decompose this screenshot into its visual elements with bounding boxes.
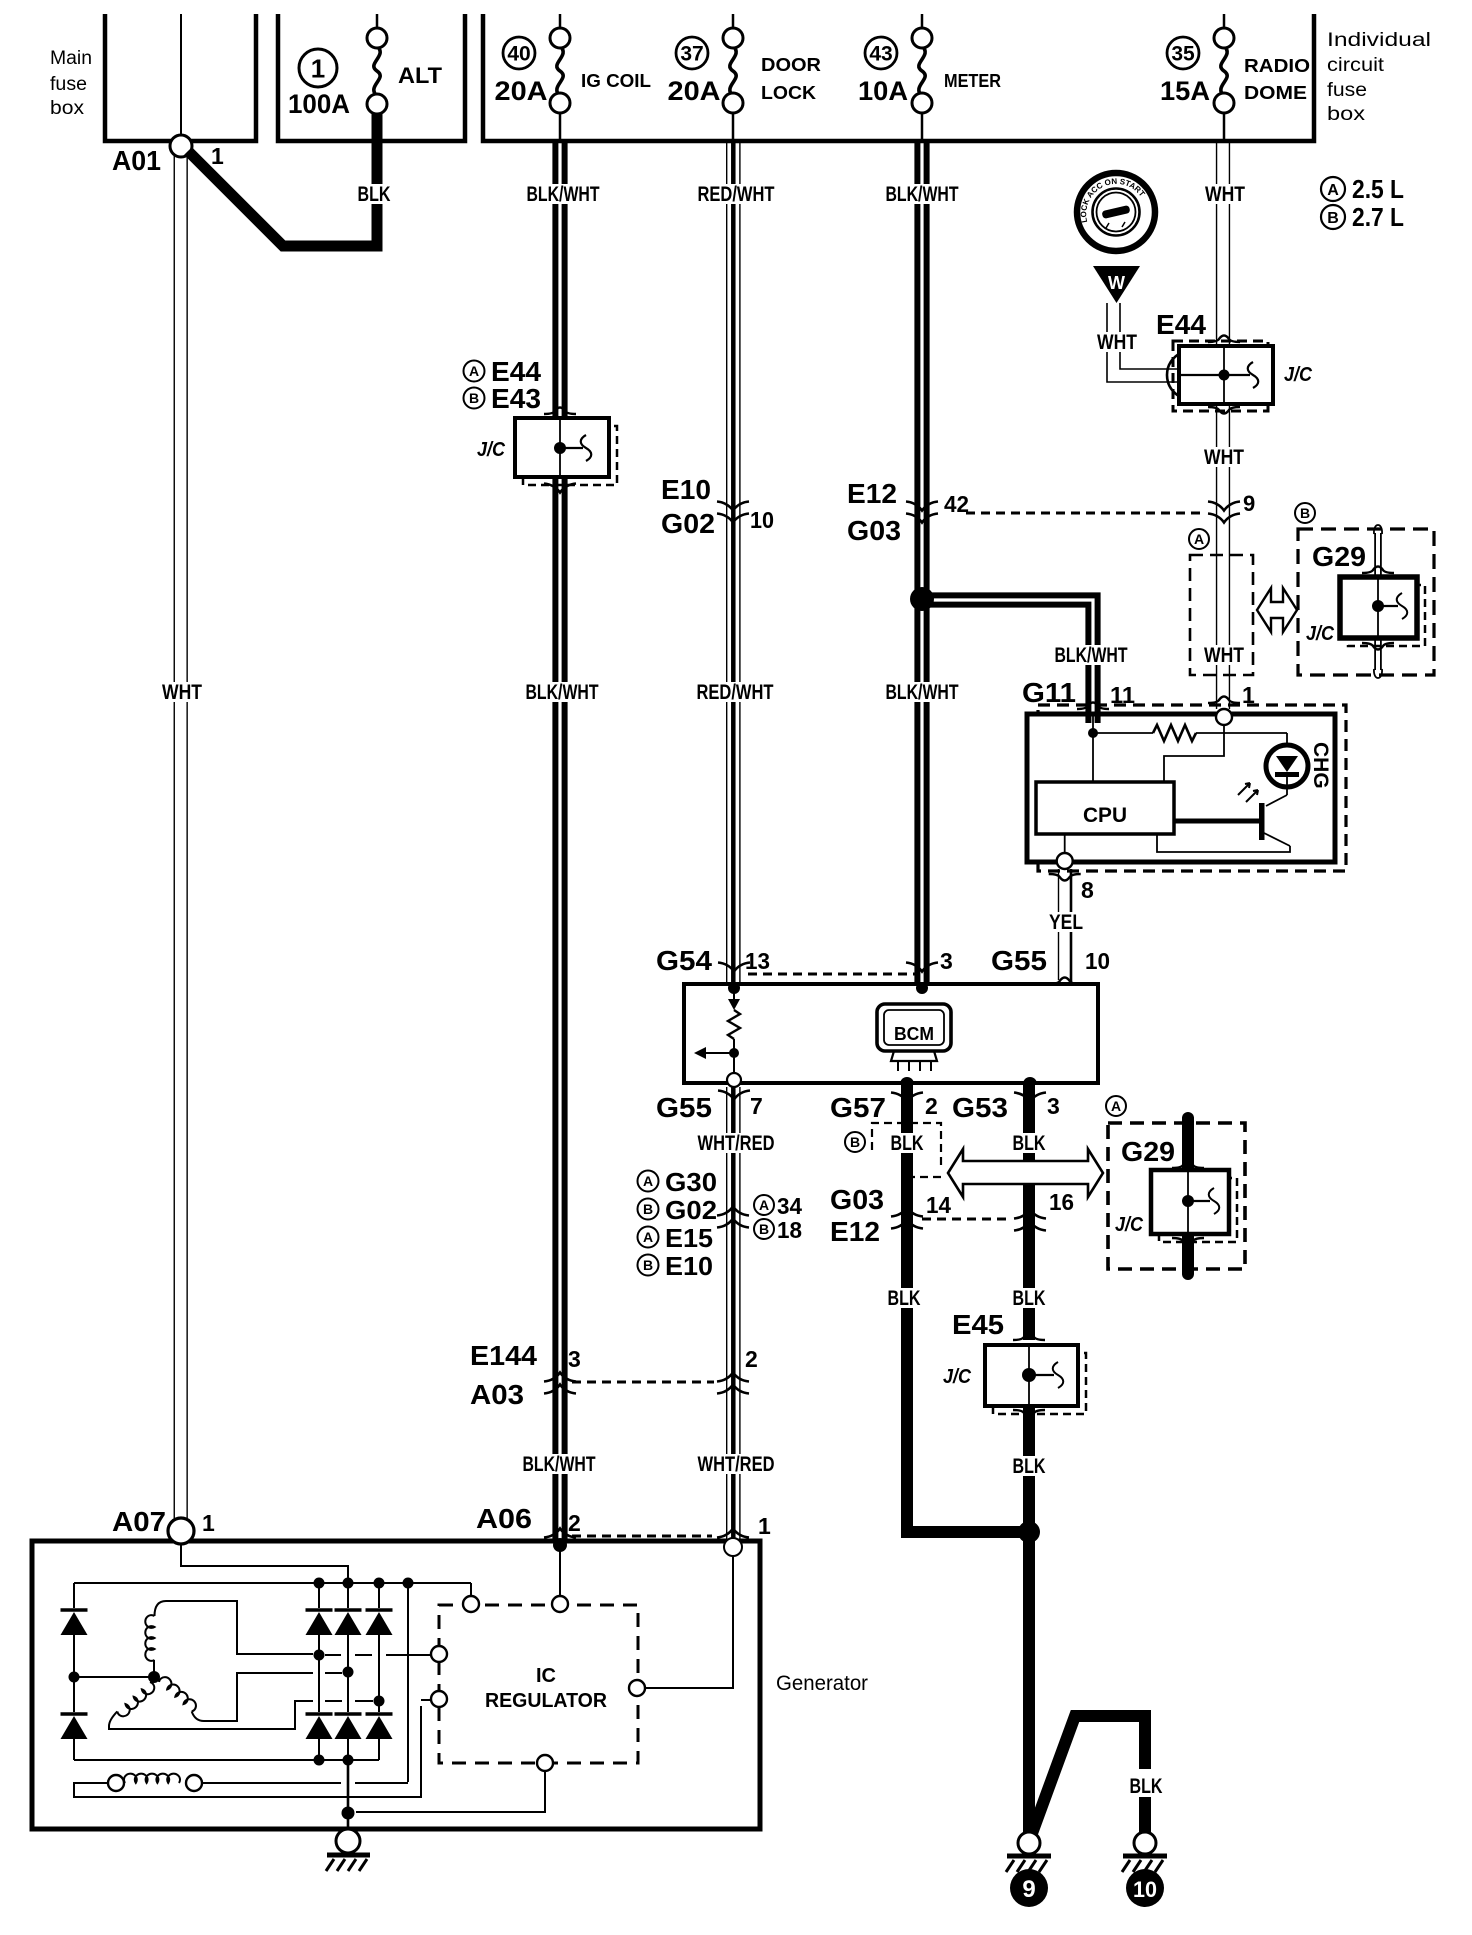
svg-text:14: 14 (926, 1192, 951, 1218)
svg-text:fuse: fuse (1327, 80, 1367, 101)
svg-text:B: B (643, 1201, 653, 1217)
pin hump G53 at BCM edge (1023, 1077, 1037, 1084)
svg-text:3: 3 (1047, 1093, 1060, 1119)
pin 1 terminal circle (1216, 709, 1232, 725)
pin hump G57 at BCM edge (900, 1077, 914, 1084)
svg-text:100A: 100A (288, 89, 350, 119)
svg-text:1: 1 (311, 53, 325, 83)
wire WHT/RED from BCM pin 7 to generator pin 1 (726, 1087, 728, 1541)
dashed tie pins 13-3 (748, 973, 917, 976)
wire label RED/WHT door (694, 682, 777, 702)
svg-text:RED/WHT: RED/WHT (697, 681, 774, 704)
connector label A E44 B E43 (464, 361, 485, 382)
connector pin 16 on G53 wire (1014, 1210, 1046, 1219)
thick BLK stub through lower G29 (1182, 1118, 1194, 1274)
svg-text:37: 37 (680, 43, 703, 66)
svg-text:DOOR: DOOR (761, 55, 821, 75)
svg-text:WHT/RED: WHT/RED (698, 1132, 775, 1155)
IC regulator dashed box (439, 1605, 638, 1763)
ignition W terminal triangle (1093, 266, 1140, 303)
svg-text:G29: G29 (1312, 541, 1366, 572)
field rotor winding with slip rings (108, 1775, 124, 1791)
field feed column 4 (407, 1583, 409, 1782)
svg-text:CPU: CPU (1083, 804, 1127, 827)
wire BLK/WHT from fuse 43 to BCM pin 3 (914, 141, 920, 984)
wire label BLK G53 (1010, 1133, 1049, 1153)
wire label WHT/RED below BCM (695, 1133, 778, 1153)
svg-text:BLK: BLK (1013, 1132, 1046, 1155)
wire BLK/WHT from fuse 40 down to A06 (552, 141, 558, 1541)
svg-text:1: 1 (1242, 682, 1255, 708)
svg-text:G55: G55 (991, 945, 1047, 976)
wire label BLK/WHT ig (523, 682, 602, 702)
svg-text:BLK/WHT: BLK/WHT (527, 183, 600, 206)
svg-text:E45: E45 (952, 1309, 1004, 1340)
ground 9 (1018, 1832, 1040, 1854)
svg-text:BLK: BLK (891, 1132, 924, 1155)
svg-text:43: 43 (869, 43, 892, 66)
svg-text:A: A (469, 363, 479, 379)
ignition switch LOCK ACC ON START (1077, 173, 1155, 251)
wire label BLK G57 (888, 1133, 927, 1153)
svg-text:ALT: ALT (398, 63, 443, 88)
svg-text:2.7 L: 2.7 L (1352, 202, 1404, 232)
meter unit G11 box (1027, 714, 1335, 862)
wire label BLK/WHT bottom (520, 1454, 599, 1474)
svg-text:10: 10 (1133, 1877, 1157, 1902)
rectifier diode column 2 (347, 1583, 349, 1608)
svg-text:B: B (759, 1221, 769, 1237)
svg-text:METER: METER (944, 71, 1001, 91)
svg-text:3: 3 (940, 948, 953, 974)
svg-text:7: 7 (750, 1093, 763, 1119)
generator B+ bus (74, 1582, 471, 1584)
rectifier diode column 3 (378, 1583, 380, 1608)
rectifier diode column 1 (318, 1583, 320, 1608)
connector G55 pin 7 (727, 1073, 741, 1087)
fuse 35 15A RADIO DOME (1223, 14, 1226, 28)
connector list A G30 B G02 A E15 B E10 (638, 1171, 659, 1192)
fuse 37 20A DOOR LOCK (732, 14, 735, 28)
wire RED/WHT from fuse 37 to BCM pin 13 (726, 141, 728, 984)
svg-text:WHT: WHT (1205, 183, 1245, 206)
wire label BLK/WHT meter2 (883, 682, 962, 702)
svg-text:A: A (1327, 182, 1339, 199)
svg-text:G30: G30 (665, 1167, 717, 1197)
svg-text:G53: G53 (952, 1092, 1008, 1123)
wire YEL from G11 pin 8 to BCM pin 10 (1058, 869, 1060, 980)
svg-text:B: B (1300, 505, 1310, 521)
generator ground (336, 1829, 360, 1853)
dashed tie 14-16 (922, 1218, 1012, 1221)
svg-text:Generator: Generator (776, 1672, 868, 1695)
svg-text:10: 10 (1085, 948, 1110, 974)
svg-text:2: 2 (745, 1346, 758, 1372)
svg-text:BLK/WHT: BLK/WHT (523, 1453, 596, 1476)
svg-text:E10: E10 (661, 474, 711, 505)
fuse 40 20A IG COIL (559, 14, 562, 28)
svg-text:G55: G55 (656, 1092, 712, 1123)
wire BLK below E45 (1023, 1406, 1035, 1837)
svg-text:9: 9 (1243, 491, 1255, 516)
svg-text:G57: G57 (830, 1092, 886, 1123)
connector pin 1 on G11 (1208, 697, 1240, 704)
generator box (32, 1541, 760, 1829)
svg-text:35: 35 (1171, 43, 1195, 66)
wire label WHT below E44 (1201, 447, 1247, 467)
svg-text:BCM: BCM (894, 1024, 934, 1044)
pin 8 of G11 (1064, 834, 1066, 853)
svg-text:10A: 10A (858, 76, 908, 106)
svg-text:G54: G54 (656, 945, 712, 976)
wire label BLK (355, 184, 394, 204)
svg-text:BLK/WHT: BLK/WHT (886, 183, 959, 206)
svg-text:E12: E12 (830, 1216, 880, 1247)
left diode column (73, 1583, 75, 1608)
main fuse box (105, 14, 256, 141)
svg-text:B: B (1327, 210, 1339, 227)
svg-text:BLK/WHT: BLK/WHT (526, 681, 599, 704)
svg-text:WHT: WHT (1204, 644, 1244, 667)
svg-text:9: 9 (1022, 1876, 1035, 1903)
wire BLK G57 pin 2 thick (907, 1083, 1023, 1532)
ground wire to ground 9 (1031, 1716, 1145, 1836)
wire label BLK ground 10 (1127, 1776, 1166, 1796)
svg-text:J/C: J/C (1284, 364, 1312, 386)
wire label RED/WHT (695, 184, 778, 204)
svg-text:20A: 20A (495, 76, 548, 106)
fuse 43 10A METER (921, 14, 924, 28)
equivalence arrow between A and B (1257, 588, 1297, 632)
svg-text:box: box (1327, 104, 1366, 125)
transistor in meter (1266, 795, 1287, 806)
svg-text:A06: A06 (476, 1503, 532, 1534)
svg-text:LOCK: LOCK (761, 83, 816, 103)
svg-text:A01: A01 (112, 145, 161, 176)
svg-text:BLK: BLK (1013, 1455, 1046, 1478)
svg-text:WHT: WHT (162, 681, 202, 704)
CPU box in meter (1036, 782, 1174, 834)
svg-text:BLK/WHT: BLK/WHT (886, 681, 959, 704)
svg-text:E43: E43 (491, 383, 541, 414)
charge indicator LED CHG (1286, 733, 1288, 752)
ALT main fuse box (278, 14, 465, 141)
svg-text:20A: 20A (668, 76, 721, 106)
svg-text:2: 2 (925, 1093, 938, 1119)
svg-text:3: 3 (568, 1346, 581, 1372)
svg-text:E10: E10 (665, 1251, 713, 1281)
resistor in meter (1093, 732, 1153, 734)
wire label BLK/WHT branch (1052, 645, 1131, 665)
generator internal wiring (181, 1544, 348, 1580)
BCM control unit box (684, 984, 1098, 1083)
svg-text:IC: IC (536, 1665, 556, 1687)
junction connector E44 J/C (1173, 341, 1268, 411)
individual circuit fuse box (483, 14, 1314, 141)
junction connector E43 J/C on IG coil wire (544, 408, 576, 415)
svg-text:A: A (1111, 1098, 1121, 1114)
svg-text:BLK: BLK (1013, 1287, 1046, 1310)
G11 connector dashed outline (1038, 705, 1346, 871)
svg-text:IG COIL: IG COIL (581, 71, 651, 91)
junction connector G29 J/C lower (1159, 1178, 1237, 1242)
engine variant legend A 2.5L B 2.7L (1321, 177, 1345, 201)
svg-text:J/C: J/C (1115, 1214, 1143, 1236)
main fuse box internal feed wire (180, 14, 182, 135)
wire BLK thick from A01 to ALT fuse (188, 114, 377, 246)
svg-text:E144: E144 (470, 1340, 537, 1371)
wire label WHT/RED bottom (695, 1454, 778, 1474)
svg-text:J/C: J/C (943, 1366, 971, 1388)
svg-text:BLK: BLK (358, 183, 391, 206)
wire label BLK/WHT (524, 184, 603, 204)
svg-text:BLK: BLK (1130, 1775, 1163, 1798)
wire WHT from A01 to A07 (173, 155, 175, 1519)
svg-text:15A: 15A (1160, 76, 1210, 106)
svg-text:1: 1 (758, 1513, 771, 1539)
svg-text:1: 1 (202, 1510, 215, 1536)
svg-text:box: box (50, 98, 85, 119)
generator bottom bus (74, 1759, 379, 1761)
svg-text:8: 8 (1081, 877, 1094, 903)
svg-text:2.5 L: 2.5 L (1352, 174, 1404, 204)
junction node on meter wire (910, 587, 934, 611)
svg-text:RADIO: RADIO (1244, 56, 1310, 76)
wire WHT from W terminal to E44 (1107, 303, 1179, 382)
svg-text:Main: Main (50, 48, 92, 69)
wire WHT from fuse 35 to G11 pin 1 (1216, 141, 1218, 709)
svg-text:G02: G02 (661, 508, 715, 539)
wire label YEL (1046, 912, 1086, 932)
svg-text:42: 42 (944, 491, 969, 517)
wire label BLK G53 lower (1010, 1288, 1049, 1308)
wire BLK/WHT branch from node to G11 pin 11 (925, 595, 1098, 718)
svg-text:40: 40 (507, 43, 530, 66)
svg-text:G02: G02 (665, 1195, 717, 1225)
LED light arrows (1246, 790, 1258, 802)
svg-text:E44: E44 (1156, 309, 1206, 340)
svg-text:G11: G11 (1022, 677, 1076, 708)
crimp mark at E44 entry (1167, 352, 1182, 398)
svg-text:B: B (850, 1134, 860, 1150)
svg-text:A: A (643, 1173, 653, 1189)
svg-text:11: 11 (1110, 682, 1135, 708)
svg-text:B: B (469, 390, 479, 406)
svg-text:E12: E12 (847, 478, 897, 509)
svg-text:E15: E15 (665, 1223, 713, 1253)
svg-text:A: A (643, 1229, 653, 1245)
variant A dashed box G29 lower (1106, 1096, 1126, 1116)
BCM monitor icon (877, 1004, 951, 1051)
svg-text:G03: G03 (847, 515, 901, 546)
svg-text:BLK/WHT: BLK/WHT (1055, 644, 1128, 667)
svg-text:A03: A03 (470, 1379, 524, 1410)
svg-text:A: A (1194, 531, 1204, 547)
svg-text:Individual: Individual (1327, 30, 1431, 51)
svg-text:A: A (759, 1197, 769, 1213)
svg-text:1: 1 (211, 143, 224, 169)
stator Y winding (148, 1671, 160, 1683)
connector marks on WHT/RED wire pins A34 B18 (717, 1207, 749, 1216)
svg-text:34: 34 (777, 1193, 802, 1219)
ground drop from rectifier (347, 1760, 350, 1828)
svg-text:13: 13 (745, 948, 770, 974)
BCM internal sensing resistor with arrows (733, 986, 735, 999)
fuse 1 100A (299, 49, 337, 87)
svg-text:BLK: BLK (888, 1287, 921, 1310)
connector pin 3 meter wire (906, 963, 938, 972)
ground 10 (1134, 1832, 1156, 1854)
svg-text:B: B (643, 1257, 653, 1273)
variant A dashed box with WHT wire (1189, 529, 1209, 549)
svg-text:WHT: WHT (1204, 446, 1244, 469)
svg-text:16: 16 (1049, 1189, 1074, 1215)
svg-text:18: 18 (777, 1217, 802, 1243)
svg-text:fuse: fuse (50, 74, 87, 95)
svg-text:J/C: J/C (477, 439, 505, 461)
wire label WHT left (159, 682, 205, 702)
svg-text:CHG: CHG (1309, 742, 1332, 789)
variant B dashed box with G29 J/C (1295, 503, 1315, 523)
wire label BLK below E45 (1010, 1456, 1049, 1476)
wire label BLK G57 lower (885, 1288, 924, 1308)
dashed connector tie E12 to 9 (966, 512, 1206, 515)
wire label BLK/WHT meter (883, 184, 962, 204)
connector 9 on WHT wire (1208, 502, 1240, 511)
terminal A06 pin 2 dot (553, 1538, 567, 1552)
variant B dashed region at G57 (845, 1132, 865, 1152)
wire BLK G53 pin 3 thick (1023, 1083, 1035, 1340)
svg-text:2: 2 (568, 1510, 581, 1536)
node A01 (170, 135, 192, 157)
wire loop through G29 (1374, 525, 1382, 534)
svg-text:W: W (1108, 273, 1125, 293)
pin 11 stub inside meter (1085, 714, 1091, 723)
svg-text:J/C: J/C (1306, 623, 1334, 645)
svg-text:WHT: WHT (1097, 331, 1137, 354)
svg-text:A07: A07 (112, 1506, 166, 1537)
svg-text:DOME: DOME (1244, 83, 1307, 103)
svg-text:RED/WHT: RED/WHT (698, 183, 775, 206)
svg-text:circuit: circuit (1327, 55, 1385, 76)
svg-text:WHT/RED: WHT/RED (698, 1453, 775, 1476)
svg-text:G29: G29 (1121, 1136, 1175, 1167)
svg-text:G03: G03 (830, 1184, 884, 1215)
svg-text:REGULATOR: REGULATOR (485, 1690, 608, 1712)
terminal pin 1 circle on generator (724, 1538, 742, 1556)
wire label WHT radio (1202, 184, 1248, 204)
wire label WHT ignition (1094, 332, 1140, 352)
junction connector G29 J/C (1348, 585, 1425, 646)
svg-text:YEL: YEL (1049, 911, 1083, 934)
svg-text:10: 10 (750, 507, 774, 533)
big interchange arrow (948, 1149, 1103, 1197)
junction dot of ground wires (1018, 1521, 1040, 1543)
IC regulator pins (463, 1596, 479, 1612)
